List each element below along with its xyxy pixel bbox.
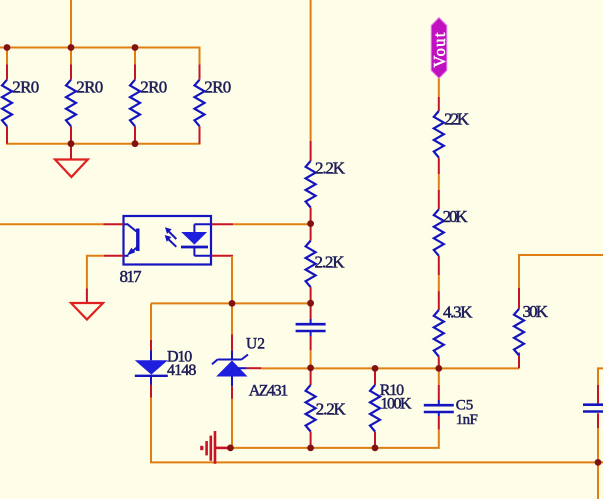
wire AZ431 cathode column bbox=[231, 303, 233, 334]
svg-text:2R0: 2R0 bbox=[204, 78, 231, 97]
wire optocoupler cathode to ground bbox=[87, 256, 104, 288]
wire right edge capacitor column bbox=[598, 368, 603, 499]
svg-text:1nF: 1nF bbox=[456, 412, 478, 428]
wire center column below compensation cap bbox=[310, 350, 312, 368]
node junction dots bbox=[227, 220, 601, 466]
resistor 2.2K #3 bbox=[306, 368, 347, 448]
svg-text:2R0: 2R0 bbox=[76, 78, 103, 97]
svg-text:100K: 100K bbox=[380, 396, 412, 413]
wire center column top segment bbox=[310, 0, 312, 141]
optocoupler U 817 bbox=[104, 216, 234, 286]
wire top rail of resistor bank bbox=[0, 48, 200, 65]
resistor 4.3K bbox=[434, 291, 473, 368]
resistor R 2R0 #3 bbox=[130, 65, 167, 144]
resistor R10 100K bbox=[370, 368, 412, 448]
svg-text:2.2K: 2.2K bbox=[315, 158, 346, 177]
resistor 2.2K #2 bbox=[306, 224, 346, 303]
diode D10 4148 bbox=[135, 340, 197, 398]
wire bottom rail of resistor bank bbox=[6, 143, 201, 145]
wire left column below D10 bbox=[150, 398, 152, 463]
wire ground rail y=447.9 bbox=[230, 430, 438, 448]
svg-text:2R0: 2R0 bbox=[12, 78, 39, 97]
capacitor compensation (unlabelled) bbox=[296, 303, 326, 350]
resistor R 2R0 #2 bbox=[66, 65, 103, 144]
svg-text:2R0: 2R0 bbox=[140, 78, 167, 97]
wire Vout column segments bbox=[438, 78, 440, 291]
resistor 2.2K #1 bbox=[306, 141, 346, 224]
resistor 30K bbox=[514, 288, 549, 369]
port Vout bbox=[430, 18, 449, 79]
wire feedback bus y=368.4 bbox=[261, 367, 519, 369]
capacitor right edge (partial) bbox=[583, 385, 603, 428]
capacitor C5 1nF bbox=[424, 368, 478, 429]
wire left column above D10 bbox=[150, 303, 152, 340]
svg-text:2.2K: 2.2K bbox=[315, 253, 346, 272]
svg-text:20K: 20K bbox=[443, 207, 469, 226]
svg-text:Vout: Vout bbox=[430, 32, 449, 67]
svg-text:22K: 22K bbox=[444, 110, 470, 129]
svg-text:817: 817 bbox=[120, 267, 143, 286]
svg-text:U2: U2 bbox=[246, 336, 265, 353]
shunt regulator U2 AZ431 bbox=[212, 334, 288, 399]
svg-text:30K: 30K bbox=[523, 302, 549, 321]
node top rail junction dots bbox=[4, 44, 139, 147]
earth ground (signal) bbox=[202, 431, 231, 464]
svg-text:4.3K: 4.3K bbox=[443, 303, 473, 322]
wire left input to optocoupler anode bbox=[0, 223, 104, 225]
ground power port under resistor bank bbox=[55, 144, 88, 177]
resistor R 2R0 #4 bbox=[195, 65, 232, 144]
svg-text:AZ431: AZ431 bbox=[249, 383, 289, 400]
wire optocoupler collector to divider node bbox=[233, 223, 311, 225]
resistor 20K bbox=[434, 190, 469, 275]
wire horizontal y=303.4 bbox=[151, 302, 311, 304]
wire bottom long rail bbox=[150, 461, 603, 463]
svg-text:2.2K: 2.2K bbox=[316, 400, 347, 419]
wire 30K column bbox=[519, 255, 603, 288]
resistor 22K bbox=[434, 97, 470, 174]
resistor R 2R0 #1 bbox=[2, 65, 39, 144]
wire top feed into resistor bank bbox=[70, 0, 72, 48]
wire optocoupler emitter down to node bbox=[231, 256, 233, 304]
ground power port under optocoupler bbox=[71, 288, 103, 319]
wire AZ431 anode column bbox=[231, 399, 233, 448]
svg-text:4148: 4148 bbox=[167, 362, 196, 379]
